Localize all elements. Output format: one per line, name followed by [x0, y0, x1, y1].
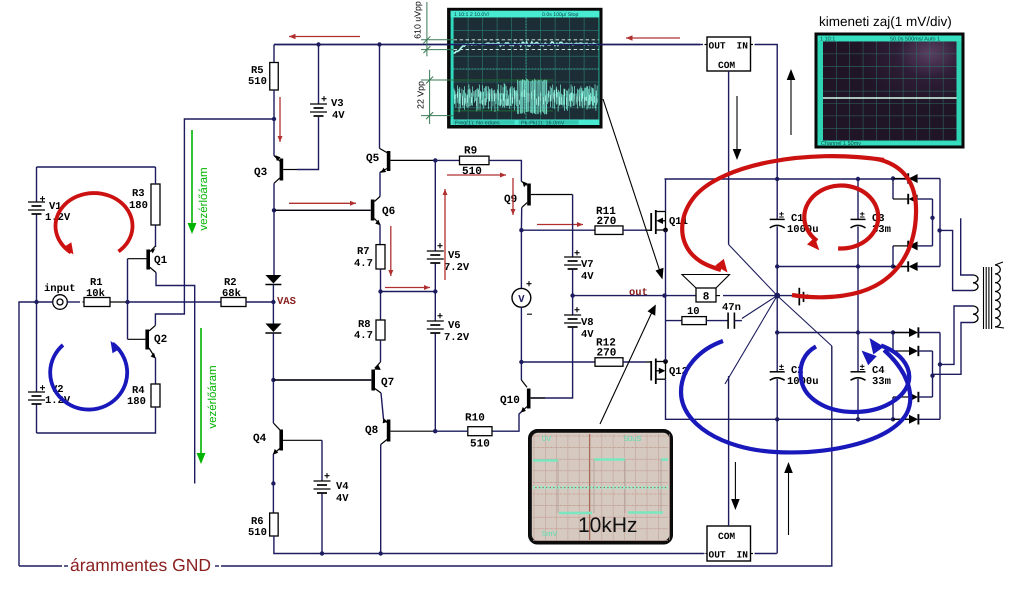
wire: Q10 emitter to R10 — [492, 412, 521, 431]
node: feedback tap — [272, 117, 276, 121]
node: upper inner junction — [930, 216, 934, 220]
wire: GND line left segment — [19, 565, 62, 567]
wire: 47n diagonal to star node — [742, 296, 777, 319]
blue loop: inner C4 current — [801, 346, 910, 413]
svg-text:1 10:1: 1 10:1 — [820, 36, 835, 42]
wire: star column through node — [776, 267, 778, 333]
battery V3 — [310, 45, 345, 123]
svg-text:4V: 4V — [336, 493, 349, 505]
svg-text:Q6: Q6 — [382, 206, 395, 218]
wire: upper bridge inner vertical — [932, 199, 934, 246]
battery V7 — [564, 249, 594, 283]
svg-text:V7: V7 — [581, 259, 594, 271]
upper bridge diode D5 — [892, 246, 894, 267]
top supply rail — [274, 44, 700, 46]
transformer secondary — [995, 265, 1000, 327]
node: R1/R2/Q1/Q2 base junction — [125, 300, 129, 304]
svg-text:OUT: OUT — [709, 550, 726, 561]
node: R12 junction — [519, 360, 523, 364]
resistor R2 — [221, 277, 246, 307]
node dots lower bank — [775, 330, 779, 334]
wire: Q12 source to out node — [665, 296, 667, 362]
svg-text:510: 510 — [462, 166, 482, 178]
svg-text:±: ± — [779, 210, 784, 220]
lower bridge diode D7 — [893, 332, 909, 334]
wire: R1 to node — [110, 301, 128, 303]
resistor R1 — [84, 277, 110, 307]
svg-text:7.2V: 7.2V — [444, 332, 470, 344]
wire: V5 to mid junction — [434, 264, 436, 292]
wire: bottom IN to rail — [751, 553, 754, 555]
svg-text:1000u: 1000u — [787, 224, 819, 236]
wire: Q11 source to out node — [665, 230, 667, 296]
pointer: bottom scope to out node — [600, 311, 653, 424]
node: input junction dot — [34, 300, 38, 304]
svg-text:Q2: Q2 — [154, 334, 167, 346]
top multimeter box OUT/IN/COM — [707, 37, 751, 71]
wire: Q9 emitter down — [520, 208, 522, 231]
wire: R2 to VAS node — [246, 301, 273, 303]
svg-text:vezérlőáram: vezérlőáram — [198, 167, 210, 230]
svg-text:270: 270 — [597, 216, 617, 228]
top output rail — [665, 178, 910, 180]
upper bridge diode D4 — [892, 179, 894, 200]
svg-text:+: + — [437, 312, 443, 323]
transistor Q8 — [365, 418, 435, 445]
svg-text:±: ± — [860, 363, 865, 373]
wire: Q3 collector down — [273, 183, 275, 275]
svg-text:270: 270 — [597, 348, 617, 360]
svg-text:33m: 33m — [872, 376, 891, 388]
node: V3 on rail — [316, 42, 320, 46]
mosfet Q11 — [646, 210, 688, 234]
svg-text:±: ± — [779, 363, 784, 373]
svg-text:V: V — [518, 294, 525, 306]
node: V7/V8 on out line — [570, 293, 574, 297]
resistor R5 — [248, 45, 278, 91]
node: upper outer junction — [937, 228, 941, 232]
wire: C3 column continues — [857, 267, 859, 333]
svg-text:−: − — [527, 311, 533, 322]
svg-text:±: ± — [860, 210, 865, 220]
svg-text:7.2V: 7.2V — [444, 262, 470, 274]
node: Q8 base junction — [433, 429, 437, 433]
node: V4 on bottom rail — [320, 551, 324, 555]
svg-text:50.0s 500ms/ Auto 1: 50.0s 500ms/ Auto 1 — [890, 36, 940, 42]
oscilloscope photo: top (610uVpp / 22Vpp) — [448, 8, 602, 128]
dimension: 610 uVpp — [413, 1, 454, 56]
svg-text:10: 10 — [687, 306, 700, 318]
node: Q8 emitter on bottom rail — [379, 551, 383, 555]
svg-text:610 uVpp: 610 uVpp — [413, 1, 423, 39]
svg-text:180: 180 — [129, 200, 148, 212]
wire: R3 bottom lead — [155, 225, 157, 247]
transformer primary upper winding — [973, 275, 978, 291]
wire: top IN to rail at C1 — [751, 44, 754, 46]
wire: Q3 base to V3 — [297, 117, 319, 170]
transistor Q1 — [128, 246, 168, 273]
svg-text:68k: 68k — [222, 288, 241, 300]
svg-text:R3: R3 — [132, 188, 145, 200]
transistor Q7 — [273, 362, 394, 393]
wire: V7 column from Q9 base — [572, 195, 574, 258]
wire: R10 to Q8 base junction — [435, 430, 468, 432]
wire: R5 to Q3 — [273, 90, 275, 156]
wire: input line left + down to GND — [19, 302, 37, 566]
node dots upper bank — [775, 177, 779, 181]
svg-text:47n: 47n — [722, 302, 741, 314]
blue loop: outer output current — [681, 341, 910, 452]
wire: voltmeter to R12 junction — [520, 307, 522, 362]
wire: R6 to bottom rail — [274, 536, 703, 554]
wire: lower bridge inner vertical — [932, 351, 934, 397]
pointer: top scope to Q11 source — [603, 99, 661, 273]
svg-text:50uS: 50uS — [624, 434, 642, 443]
wire: Q10 collector up — [520, 362, 522, 380]
red loop arrow (V1 loop current) — [56, 193, 133, 252]
svg-text:510: 510 — [248, 527, 267, 539]
wire: V2 column — [36, 302, 38, 392]
green arrow: upper vezerloaram — [191, 130, 193, 226]
wire: junction to R12 — [521, 361, 595, 363]
battery V6 — [427, 292, 470, 345]
battery V8 — [564, 296, 594, 341]
transformer core — [983, 267, 985, 329]
wire: upper outer to winding bottom — [940, 230, 973, 290]
svg-text:R9: R9 — [464, 146, 477, 158]
capacitor C3 33m — [851, 179, 891, 267]
svg-text:vezérlőáram: vezérlőáram — [207, 365, 219, 428]
transistor Q2 — [128, 325, 168, 358]
wire: Q2 base up — [127, 302, 129, 339]
svg-text:510: 510 — [248, 76, 267, 88]
wire: V2 bottom lead — [36, 405, 38, 434]
svg-text:+: + — [321, 95, 327, 106]
wire: R8 to Q7 collector — [380, 340, 382, 362]
resistor R10 — [465, 413, 492, 451]
wire: input to R1 — [67, 301, 80, 303]
wire: upper inner to winding top — [961, 218, 973, 275]
svg-text:V5: V5 — [448, 250, 461, 262]
svg-text:+: + — [574, 249, 580, 260]
svg-text:Q8: Q8 — [365, 425, 379, 437]
blue loop arrow (V2 loop current) — [50, 344, 127, 410]
node: Q4 emitter junction — [271, 481, 275, 485]
svg-text:V3: V3 — [331, 98, 344, 110]
battery V5 — [427, 160, 470, 274]
capacitor C1 1000u — [770, 179, 819, 267]
svg-text:R10: R10 — [465, 413, 485, 425]
svg-text:out: out — [629, 287, 648, 299]
svg-text:input: input — [44, 283, 76, 295]
ground symbol — [777, 288, 807, 306]
capacitor 47n — [706, 302, 742, 329]
wire: V1 top lead — [36, 167, 38, 202]
resistor R4 — [127, 384, 160, 408]
svg-text:0V: 0V — [542, 434, 551, 443]
wire: bottom rail dash to OUT — [703, 553, 705, 555]
transistor Q3 — [254, 155, 297, 183]
resistor R11 — [595, 206, 623, 234]
wire: branch to Q7 base — [273, 379, 371, 381]
svg-text:4V: 4V — [581, 329, 594, 341]
diode D2 — [265, 324, 281, 333]
wire: lower bridge outer vertical — [939, 333, 941, 420]
wire: Q4 emitter down — [272, 454, 274, 484]
svg-text:Q5: Q5 — [366, 153, 380, 165]
resistor R8 — [354, 292, 385, 343]
wire: out line — [573, 295, 665, 297]
node: Q6 base tap — [272, 208, 276, 212]
wire: junction to R6 — [272, 484, 274, 514]
svg-text:5mV: 5mV — [542, 529, 557, 538]
red arrow: mid wire right — [385, 287, 430, 289]
node: Q5 base junction — [433, 158, 437, 162]
wire: upper bridge outer vertical — [939, 179, 941, 267]
transistor Q9 — [504, 181, 573, 207]
resistor R7 — [354, 245, 385, 270]
transistor Q5 — [366, 148, 435, 172]
wire: D2 down to Q7 branch — [272, 333, 274, 423]
svg-text:4V: 4V — [332, 110, 345, 122]
upper bridge diode D6 — [893, 266, 908, 268]
battery V2 — [28, 384, 71, 407]
svg-text:0.0s 100µ/ Stop: 0.0s 100µ/ Stop — [542, 12, 579, 18]
wire: Q1 base down to input node — [127, 259, 129, 302]
diagonal: star node to bottom COM — [725, 296, 777, 384]
input terminal — [37, 283, 76, 309]
svg-text:180: 180 — [127, 396, 146, 408]
svg-text:V6: V6 — [448, 320, 461, 332]
svg-text:Q1: Q1 — [154, 255, 168, 267]
wire: V7 to out line — [572, 270, 574, 296]
svg-text:Q3: Q3 — [254, 167, 268, 179]
wire: V4 bottom — [321, 494, 323, 554]
wire: Q6 base line — [274, 209, 371, 211]
speaker 8 ohm — [665, 275, 730, 304]
wire: R11 to Q11 gate — [623, 229, 646, 231]
svg-text:1 10:1 2 10.0V/: 1 10:1 2 10.0V/ — [454, 12, 490, 18]
capacitor C4 33m — [851, 333, 891, 420]
wire: V1 bottom lead — [36, 215, 38, 303]
black arrow: bottom IN up current — [788, 470, 790, 535]
svg-text:4.7: 4.7 — [354, 258, 373, 270]
wire: lower winding bottom lead — [933, 323, 974, 375]
wire: Q2 emitter to R4 — [155, 358, 157, 384]
oscilloscope photo: kimeneti zaj — [815, 33, 964, 148]
battery V1 — [28, 195, 71, 224]
wire: star column to bottom box IN — [776, 419, 778, 553]
red arrow: under R9 — [447, 174, 506, 176]
svg-text:árammentes GND: árammentes GND — [70, 555, 211, 575]
svg-text:8: 8 — [703, 292, 710, 304]
svg-text:V4: V4 — [336, 481, 349, 493]
wire: D1 to VAS node — [272, 285, 274, 303]
svg-text:IN: IN — [737, 550, 749, 561]
node: Q5 column on rail — [377, 42, 381, 46]
diagonal: star node to GND drop — [777, 296, 832, 346]
wire: junction to R11 — [521, 229, 595, 231]
mid rail (lower bank top) — [777, 332, 909, 334]
svg-text:Channel 1 50mv: Channel 1 50mv — [821, 141, 861, 147]
wire: Q7 emitter to Q8 collector — [381, 393, 384, 419]
wire: Q6 emitter to R7 — [379, 225, 381, 245]
svg-text:Q4: Q4 — [253, 433, 267, 445]
node: V5/V6 junction — [433, 289, 437, 293]
black arrow: top COM down current — [736, 96, 738, 152]
svg-text:+: + — [437, 242, 443, 253]
wire: top COM down — [728, 71, 730, 245]
wire: V6 down to Q8 base junction — [434, 334, 436, 432]
battery V4 — [314, 440, 350, 505]
transistor Q4 — [253, 423, 322, 455]
wire: rail dash to OUT — [700, 44, 703, 46]
svg-text:510: 510 — [470, 439, 490, 451]
wire: R9 to Q9 collector — [489, 160, 521, 181]
diagonal: star node to top COM — [729, 245, 778, 296]
red arrow: into Q6 base — [289, 202, 356, 204]
transistor Q6 — [274, 197, 395, 226]
gnd dash right — [215, 565, 219, 567]
black arrow: top IN up current — [790, 77, 792, 135]
voltmeter V — [512, 280, 533, 322]
wire: GND drop vertical — [221, 346, 832, 566]
svg-text:COM: COM — [718, 60, 735, 71]
wire: speaker to star node — [716, 295, 720, 297]
svg-text:10k: 10k — [86, 288, 105, 300]
black arrow: bottom COM down current — [734, 462, 736, 502]
red arrow: above R11 wire — [537, 224, 583, 226]
wire: node to R2 — [128, 301, 222, 303]
resistor R9 — [435, 146, 489, 179]
red arrow: up beside V5 — [444, 189, 446, 280]
svg-text:Q10: Q10 — [500, 395, 520, 407]
red arrow on top rail (right) — [626, 37, 680, 39]
resistor R3 — [129, 184, 160, 225]
wire: Q1 collector jog to x=194.7 — [156, 273, 195, 484]
capacitor C2 1000u — [770, 333, 819, 420]
star ground node — [774, 293, 780, 299]
wire: VAS to D2 — [272, 302, 274, 324]
voltmeter column from Q9 junction — [520, 230, 522, 288]
red arrow: down beside R7 — [390, 226, 392, 276]
svg-text:+: + — [40, 384, 46, 395]
wire: Q12 drain to bottom rail — [666, 379, 910, 419]
svg-text:+: + — [526, 280, 532, 291]
svg-text:V8: V8 — [581, 317, 594, 329]
wire: bottom COM up — [728, 376, 730, 526]
svg-text:Q9: Q9 — [504, 194, 517, 206]
svg-text:Q7: Q7 — [381, 377, 394, 389]
node: Q7 base branch — [271, 378, 275, 382]
wire: R4 bottom loop to V2 — [37, 407, 156, 433]
transformer primary lower winding — [973, 306, 978, 323]
node: lower inner junction — [930, 374, 934, 378]
wire: R7 to mid node — [380, 269, 382, 292]
wire: lower winding top lead — [940, 306, 973, 364]
gnd dash left — [64, 565, 68, 567]
green arrow: lower vezerloaram — [200, 328, 202, 456]
svg-text:kimeneti zaj(1 mV/div): kimeneti zaj(1 mV/div) — [819, 14, 952, 29]
wire: V1 loop top — [37, 166, 156, 168]
red arrow: down at Q9 — [512, 178, 514, 215]
red loop: outer output current — [682, 156, 884, 270]
oscilloscope photo: 10kHz square wave — [529, 430, 673, 545]
svg-text:+: + — [40, 195, 46, 206]
wire: Q2 collector jog to x=184.4 feedback line — [155, 119, 274, 325]
wire: rail down to Q5 — [379, 45, 381, 149]
wire: Q8 emitter to bottom rail — [380, 445, 382, 554]
red arrow on top rail (left) — [289, 36, 360, 38]
wire: R3 top lead — [155, 167, 157, 184]
resistor R12 — [595, 338, 623, 367]
svg-text:COM: COM — [718, 531, 735, 542]
svg-text:Freq(1): No edges: Freq(1): No edges — [455, 120, 500, 126]
svg-text:Pk-Pk(1): 16.0mV: Pk-Pk(1): 16.0mV — [521, 120, 565, 126]
node: Q9 emitter junction — [519, 228, 523, 232]
top rail crossing over scope — [274, 44, 700, 46]
upper bridge return rail — [777, 266, 909, 268]
svg-text:+: + — [574, 306, 580, 317]
wire: Q11 drain to top rail — [665, 179, 667, 212]
resistor R6 — [248, 513, 278, 539]
resistor 10 (zobel) — [666, 306, 707, 325]
svg-text:+: + — [324, 472, 330, 483]
svg-text:OUT: OUT — [709, 41, 726, 52]
bottom multimeter box COM/OUT/IN — [707, 526, 751, 561]
svg-text:VAS: VAS — [277, 296, 296, 308]
svg-text:4.7: 4.7 — [354, 330, 373, 342]
svg-text:IN: IN — [737, 41, 749, 52]
dimension: 22 Vpp — [416, 70, 454, 124]
svg-text:R7: R7 — [357, 246, 370, 258]
lower bridge diode D10 — [893, 418, 909, 420]
red loop: inner C3 current — [804, 186, 878, 249]
node: R7/R8 midpoint — [378, 289, 382, 293]
svg-text:4V: 4V — [581, 271, 594, 283]
wire: mid node to V5/V6 junction — [381, 291, 436, 293]
node: lower outer junction — [938, 362, 942, 366]
lower bridge diode D9 — [892, 397, 894, 419]
wire: R12 to Q12 gate — [623, 361, 646, 363]
node: out — [662, 293, 666, 297]
node: VAS — [271, 300, 275, 304]
upper bridge diode D3 — [893, 178, 908, 180]
svg-text:10kHz: 10kHz — [578, 514, 638, 537]
svg-text:22 Vpp: 22 Vpp — [416, 81, 426, 109]
wire: V8 down to Q10 base — [531, 328, 573, 399]
transistor Q10 — [500, 380, 545, 413]
wire: Q5 emitter to Q6 collector — [379, 172, 381, 196]
mosfet Q12 — [646, 359, 688, 385]
diode D1 above VAS — [265, 275, 281, 284]
lower bridge diode D8 — [892, 333, 894, 352]
red arrow: current down into Q3 — [279, 97, 281, 142]
